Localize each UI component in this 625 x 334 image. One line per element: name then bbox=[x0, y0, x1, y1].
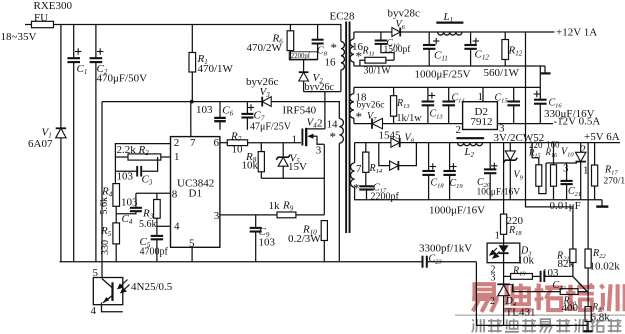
op-amp U1 - UC3842 controller box D1 bbox=[171, 137, 220, 248]
wire - R8/V5 bottom to source bbox=[261, 177, 324, 179]
wire - light arrows into 4N25 bbox=[118, 280, 130, 293]
svg-text:2: 2 bbox=[456, 124, 462, 136]
svg-text:10k: 10k bbox=[242, 160, 259, 172]
svg-text:1: 1 bbox=[495, 230, 501, 242]
resistor R3 5.6k bbox=[156, 193, 158, 199]
svg-text:7: 7 bbox=[356, 163, 362, 175]
svg-text:5.6k: 5.6k bbox=[99, 197, 110, 215]
svg-text:4: 4 bbox=[91, 305, 97, 317]
resistor R18 220 bbox=[503, 143, 505, 215]
capacitor C23 3300pf/1kV bbox=[422, 256, 424, 268]
winding - aux 14 turns bbox=[339, 119, 343, 144]
resistor R12 560/1W bbox=[504, 32, 506, 40]
svg-text:4: 4 bbox=[174, 221, 180, 233]
wire - pin 5 to ground rail bbox=[191, 247, 193, 261]
resistor R21 82k bbox=[570, 249, 576, 263]
svg-text:1: 1 bbox=[292, 134, 298, 146]
zener V5 15V bbox=[282, 143, 284, 158]
svg-text:byv28c: byv28c bbox=[388, 8, 421, 20]
resistor R23 6.8k bbox=[585, 307, 591, 322]
capacitor C15 bbox=[513, 87, 515, 101]
svg-text:RXE300: RXE300 bbox=[34, 0, 73, 12]
wire - +12V sense line down bbox=[526, 32, 573, 249]
svg-text:3300pf/1kV: 3300pf/1kV bbox=[419, 243, 472, 255]
winding - secondary 16 turns bbox=[353, 32, 355, 39]
resistor R17 270/1W bbox=[594, 143, 596, 165]
svg-text:1: 1 bbox=[174, 151, 180, 163]
wire - pin 7 lead bbox=[190, 102, 192, 137]
wire - crowbar gate bbox=[546, 162, 577, 164]
svg-text:2: 2 bbox=[174, 137, 180, 149]
svg-text:7: 7 bbox=[190, 137, 196, 149]
svg-text:3: 3 bbox=[214, 210, 220, 222]
svg-text:1000μF/16V: 1000μF/16V bbox=[429, 205, 485, 217]
capacitor C18 bbox=[428, 143, 430, 171]
wire - VCC node from R1 to aux winding bbox=[102, 102, 339, 119]
svg-text:15V: 15V bbox=[288, 161, 307, 173]
capacitor C4 103 bbox=[135, 193, 137, 208]
capacitor C2 bbox=[95, 25, 97, 59]
svg-text:*: * bbox=[353, 181, 360, 196]
svg-text:3: 3 bbox=[491, 273, 496, 284]
svg-text:+12V 1A: +12V 1A bbox=[556, 27, 597, 39]
resistor R9 1k bbox=[277, 212, 296, 218]
node - junction dot at R1 bottom bbox=[190, 100, 194, 104]
svg-text:103: 103 bbox=[196, 104, 213, 116]
wire - pin 2 feedback bbox=[115, 144, 170, 184]
capacitor C6 103 bbox=[219, 102, 221, 118]
resistor R11 30/1W bbox=[365, 57, 386, 63]
resistor R22 10.02k bbox=[585, 249, 591, 268]
svg-text:2: 2 bbox=[471, 151, 475, 159]
wire - +12V ground rail bbox=[354, 65, 545, 67]
wire - +12V rectified rail bbox=[354, 31, 392, 33]
resistor R8 10k bbox=[260, 143, 262, 152]
svg-text:1545: 1545 bbox=[379, 130, 402, 142]
svg-text:4700pf: 4700pf bbox=[140, 247, 169, 258]
svg-text:18~35V: 18~35V bbox=[1, 31, 37, 43]
fuse FU bbox=[32, 21, 54, 27]
svg-text:470/2W: 470/2W bbox=[247, 42, 283, 54]
capacitor C11 1000uF/25V bbox=[428, 32, 430, 45]
svg-text:470/1W: 470/1W bbox=[198, 63, 234, 75]
svg-text:7912: 7912 bbox=[471, 116, 493, 128]
svg-text:D1: D1 bbox=[189, 188, 202, 200]
winding - secondary 7 turns bbox=[354, 143, 356, 163]
svg-text:47μF/25V: 47μF/25V bbox=[250, 122, 292, 133]
svg-text:1000μF/25V: 1000μF/25V bbox=[415, 69, 471, 81]
svg-text:10k: 10k bbox=[518, 255, 535, 267]
winding - primary 16 turns bbox=[341, 42, 345, 70]
svg-text:4N25/0.5: 4N25/0.5 bbox=[131, 281, 173, 293]
capacitor C5 4700pf bbox=[156, 226, 158, 236]
svg-text:14: 14 bbox=[327, 119, 339, 131]
shunt D4 TL431 bbox=[497, 283, 510, 285]
svg-text:10.02k: 10.02k bbox=[590, 261, 621, 273]
wire - pin 4 lead bbox=[157, 225, 171, 227]
resistor R10 0.2/3W bbox=[321, 221, 327, 241]
capacitor C7 47uF/25V bbox=[246, 102, 248, 114]
capacitor C22 103 bbox=[540, 271, 542, 282]
wire - LED cathode to TL431 bbox=[503, 263, 505, 285]
svg-text:5.6k: 5.6k bbox=[139, 219, 157, 230]
wire - -12V section ground wire bbox=[354, 86, 540, 88]
svg-text:2.2k: 2.2k bbox=[117, 144, 137, 156]
resistor R20 400 bbox=[510, 285, 560, 292]
svg-text:103: 103 bbox=[117, 171, 134, 183]
wire - drain vertical bbox=[324, 92, 326, 129]
svg-text:*: * bbox=[330, 129, 337, 144]
wire - divider diagonal bbox=[573, 276, 587, 291]
svg-text:0.01μF: 0.01μF bbox=[550, 200, 581, 212]
wire - source down to current sense bbox=[323, 144, 325, 215]
resistor R16 160 bbox=[553, 143, 555, 165]
wire - primary ground rail bbox=[60, 261, 423, 263]
svg-text:560/1W: 560/1W bbox=[484, 67, 520, 79]
svg-text:byv26c: byv26c bbox=[357, 101, 385, 111]
svg-text:3: 3 bbox=[316, 145, 322, 157]
svg-text:1: 1 bbox=[478, 91, 484, 103]
wire - pin 3 current sense wire bbox=[220, 214, 324, 216]
capacitor C12 bbox=[470, 32, 472, 45]
svg-text:103: 103 bbox=[542, 267, 559, 279]
capacitor C14 bbox=[448, 87, 450, 101]
svg-text:103: 103 bbox=[259, 237, 276, 249]
capacitor C16 330uF/16V bbox=[539, 66, 541, 100]
wire - snubber bottom bbox=[289, 59, 318, 61]
capacitor C13 bbox=[427, 87, 429, 101]
resistor R5 330 bbox=[113, 223, 120, 244]
svg-text:103: 103 bbox=[121, 197, 138, 209]
capacitor C3 103 bbox=[115, 170, 137, 172]
wire - top input rail to transformer primary bbox=[25, 25, 341, 42]
capacitor C17 2200pf bbox=[359, 185, 373, 187]
svg-text:EC28: EC28 bbox=[330, 11, 356, 23]
diode V2 byv26c bbox=[303, 60, 305, 72]
resistor R13 1k/1w bbox=[393, 87, 395, 95]
wire - +5V rectified rail bbox=[355, 142, 620, 144]
svg-text:*: * bbox=[356, 109, 363, 124]
svg-text:330: 330 bbox=[100, 240, 111, 255]
capacitor C1 bbox=[73, 25, 75, 59]
capacitor C9 103 bbox=[255, 215, 257, 228]
capacitor C21 0.01uF bbox=[566, 163, 568, 181]
svg-text:1k: 1k bbox=[269, 200, 281, 212]
resistor R15 220 bbox=[532, 143, 539, 165]
optocoupler D3 LED side bbox=[487, 243, 520, 263]
regulator D2 7912 bbox=[463, 102, 498, 130]
svg-text:1500pf: 1500pf bbox=[384, 44, 412, 55]
svg-text:270/1W: 270/1W bbox=[604, 177, 625, 187]
diode V1 6A07 bbox=[60, 25, 62, 129]
svg-text:30/1W: 30/1W bbox=[364, 66, 392, 77]
capacitor C19 bbox=[449, 143, 451, 171]
wire - -12V output bbox=[497, 123, 553, 125]
svg-text:2200pf: 2200pf bbox=[371, 191, 400, 202]
resistor R2 2.2k bbox=[115, 156, 170, 158]
label box 2200pf bbox=[289, 52, 317, 59]
wire - R22 feed from +5V bbox=[587, 143, 589, 249]
svg-text:2200pf: 2200pf bbox=[291, 53, 311, 60]
capacitor C20 100uF/16V bbox=[489, 143, 491, 170]
svg-text:1k/1w: 1k/1w bbox=[397, 113, 423, 124]
ground - +12V section bbox=[544, 66, 546, 73]
wire - pin 8 lead bbox=[136, 192, 171, 194]
resistor R6 470/2W snubber bbox=[289, 25, 291, 31]
ground - feedback section bbox=[587, 325, 589, 330]
resistor R14 bbox=[365, 143, 367, 153]
svg-text:8: 8 bbox=[172, 189, 178, 201]
capacitor C8 2200pf bbox=[317, 25, 319, 40]
wire - left feedback vertical to optocoupler bbox=[101, 102, 103, 278]
svg-text:10: 10 bbox=[232, 144, 244, 156]
svg-text:+5V 6A: +5V 6A bbox=[584, 131, 620, 143]
watermark bbox=[455, 284, 625, 333]
svg-text:6: 6 bbox=[214, 137, 220, 149]
wire - secondary feedback ground rail bbox=[476, 262, 588, 326]
svg-text:82k: 82k bbox=[558, 258, 575, 270]
resistor R7 10 bbox=[220, 142, 227, 144]
svg-text:2: 2 bbox=[317, 118, 323, 130]
svg-text:-12V 0.5A: -12V 0.5A bbox=[554, 116, 601, 128]
capacitor C10 1500pf bbox=[380, 32, 382, 41]
svg-text:470μF/50V: 470μF/50V bbox=[97, 73, 148, 85]
svg-text:0.2/3W: 0.2/3W bbox=[288, 233, 321, 245]
svg-text:16: 16 bbox=[325, 57, 337, 69]
wire - V2 anode to primary bottom bbox=[304, 91, 341, 93]
svg-text:IRF540: IRF540 bbox=[283, 105, 317, 117]
resistor R1 470/1W bbox=[191, 25, 193, 53]
svg-text:FU: FU bbox=[34, 12, 48, 24]
ground - +5V section bbox=[601, 200, 603, 206]
winding - secondary 18 turns bbox=[353, 87, 355, 93]
resistor R19 10k bbox=[504, 275, 511, 277]
svg-text:3: 3 bbox=[563, 163, 569, 175]
resistor R4 5.6k bbox=[113, 184, 120, 207]
wire - +5V ground rail bbox=[354, 199, 602, 201]
svg-text:6A07: 6A07 bbox=[28, 138, 53, 150]
svg-text:100μF/16V: 100μF/16V bbox=[477, 188, 521, 198]
svg-text:*: * bbox=[331, 40, 338, 55]
